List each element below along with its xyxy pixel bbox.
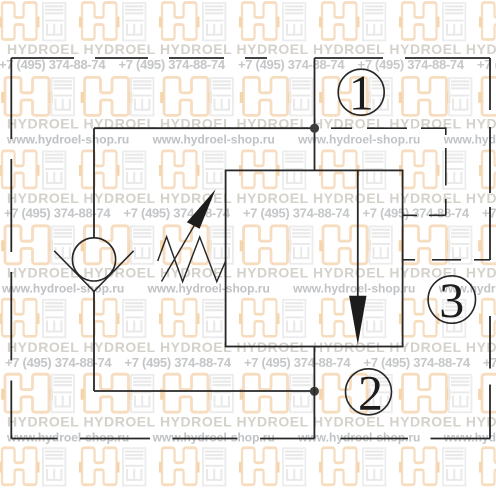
pilot line dashed to right <box>331 127 446 215</box>
pilot drain dashed <box>403 259 490 261</box>
enclosure dashed border bottom <box>11 438 490 440</box>
port 1 circle <box>338 69 384 115</box>
svg-text:2: 2 <box>358 364 383 420</box>
enclosure dashed border right <box>489 58 491 439</box>
wire check valve lower <box>93 291 95 391</box>
port 2 circle <box>346 369 392 415</box>
wire port1 vertical <box>314 58 316 170</box>
node junction lower <box>310 387 319 396</box>
wire lower horizontal <box>94 390 314 392</box>
wire port2 vertical <box>313 347 315 439</box>
port 3 circle <box>428 276 475 323</box>
adjustment arrow shaft <box>162 223 197 282</box>
adjustment arrowhead <box>187 189 216 229</box>
node junction upper <box>310 124 319 133</box>
check valve C1 <box>54 238 133 292</box>
valve body <box>226 170 403 346</box>
wire check valve upper <box>93 128 95 238</box>
wire upper horizontal <box>94 127 315 129</box>
enclosure dashed border top <box>11 57 490 59</box>
flow path line <box>357 170 359 300</box>
spring <box>158 237 226 282</box>
flow path arrowhead <box>349 296 366 345</box>
svg-text:3: 3 <box>439 272 464 328</box>
enclosure dashed border left <box>10 58 12 439</box>
svg-text:1: 1 <box>349 65 374 121</box>
